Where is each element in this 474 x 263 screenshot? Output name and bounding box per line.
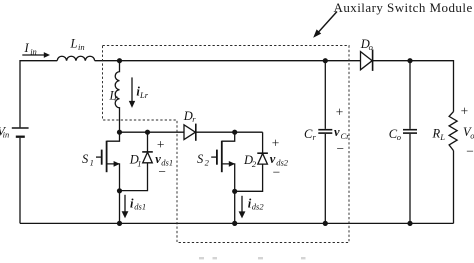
wire bottom rail: [20, 222, 454, 224]
label D2: [243, 153, 257, 169]
transistor S2: [211, 132, 235, 191]
svg-text:r: r: [313, 132, 317, 142]
node S1 source junction dot: [117, 188, 122, 193]
current arrow iLr: [129, 77, 149, 108]
transistor S1: [96, 132, 120, 191]
svg-text:−: −: [466, 144, 474, 159]
svg-text:+: +: [461, 104, 469, 119]
svg-text:2: 2: [252, 159, 257, 169]
label C0: [389, 127, 401, 142]
wire mid rail Lr node to D2 corner: [120, 131, 263, 133]
label vds1: [155, 152, 173, 167]
svg-text:S: S: [197, 152, 204, 166]
label vds2: [270, 152, 289, 167]
dashed auxiliary module outline: [103, 46, 350, 243]
capacitor Cr: [318, 61, 332, 224]
annotation pointer arrow: [313, 12, 337, 38]
label Cr: [304, 127, 317, 142]
label Lr: [109, 88, 119, 102]
label S1: [82, 152, 94, 168]
wire S1 source to bottom rail: [119, 191, 121, 224]
svg-text:o: o: [397, 132, 401, 142]
wire top-left input segment: [20, 61, 57, 128]
svg-text:o: o: [369, 42, 373, 52]
svg-text:−: −: [273, 164, 281, 179]
resistor RL: [449, 112, 457, 151]
caption remnant marks: [199, 257, 306, 259]
svg-text:in: in: [78, 42, 85, 52]
label RL: [432, 126, 446, 142]
inductor Lin: [57, 56, 94, 60]
svg-text:ds1: ds1: [134, 202, 146, 212]
current arrow ids2: [239, 196, 265, 219]
node Cr bottom dot: [323, 221, 328, 226]
diode D1: [120, 132, 153, 190]
current arrow ids1: [122, 195, 147, 218]
wire top rail node A to D0: [120, 60, 361, 62]
node A dot (Lr top): [117, 58, 122, 63]
label S2: [197, 152, 210, 168]
svg-text:v: v: [334, 125, 340, 139]
svg-text:r: r: [114, 93, 118, 103]
label Lin: [70, 37, 85, 52]
node bottom rail S2 dot: [232, 221, 237, 226]
svg-text:+: +: [336, 105, 344, 120]
svg-text:1: 1: [137, 159, 141, 169]
svg-text:L: L: [439, 132, 445, 142]
inductor Lr: [115, 61, 119, 133]
wire D0 cathode to C0 node: [373, 60, 410, 62]
battery Vin: [12, 128, 29, 137]
svg-text:r: r: [192, 114, 196, 124]
node C0 bottom dot: [407, 221, 412, 226]
wire top-right corner to RL: [410, 61, 454, 112]
diode D0: [361, 50, 373, 71]
label D1: [129, 153, 142, 169]
diode Dr: [184, 124, 196, 141]
svg-text:in: in: [3, 130, 10, 140]
svg-text:2: 2: [205, 158, 210, 168]
diode D2: [235, 132, 268, 191]
svg-text:Cr: Cr: [341, 131, 351, 141]
svg-text:o: o: [470, 131, 474, 141]
wire S2 source to bottom rail: [234, 191, 236, 223]
svg-text:S: S: [82, 152, 89, 166]
wire Lin to node A: [95, 60, 120, 62]
svg-text:ds2: ds2: [252, 202, 265, 212]
svg-text:R: R: [432, 126, 441, 140]
node Cr top dot: [323, 58, 328, 63]
svg-text:−: −: [158, 164, 166, 179]
label Vin: [0, 125, 9, 140]
label Vo: [463, 125, 474, 141]
current arrow Iin: [22, 41, 50, 58]
wire left rail below battery: [19, 138, 21, 224]
label vCr: [334, 125, 350, 141]
svg-text:+: +: [272, 136, 280, 151]
svg-text:Auxilary Switch Module: Auxilary Switch Module: [334, 0, 473, 15]
node bottom rail S1 dot: [117, 221, 122, 226]
svg-text:I: I: [24, 41, 30, 55]
node S1 drain dot: [117, 130, 122, 135]
node S2 drain dot: [232, 130, 237, 135]
svg-text:in: in: [30, 47, 37, 57]
capacitor C0: [403, 61, 417, 224]
node S2 source junction dot: [232, 189, 237, 194]
svg-text:Lr: Lr: [139, 90, 149, 100]
label D0: [360, 37, 373, 52]
svg-text:−: −: [336, 141, 344, 156]
wire RL bottom lead to bottom rail: [453, 151, 455, 224]
node D1 cathode dot: [145, 130, 150, 135]
label Dr: [183, 109, 197, 124]
svg-text:L: L: [70, 37, 78, 51]
svg-text:1: 1: [90, 158, 94, 168]
node C0 top dot: [407, 58, 412, 63]
svg-text:+: +: [157, 137, 165, 152]
